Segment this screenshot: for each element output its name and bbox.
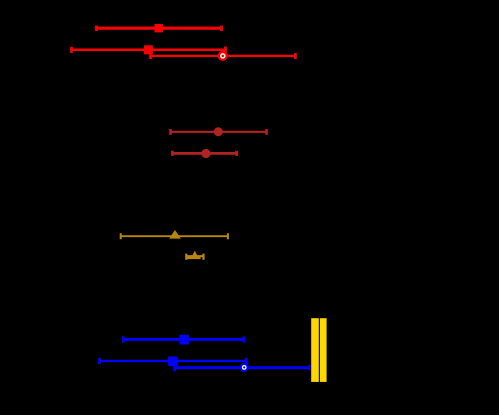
gold vertical bar left xyxy=(311,318,319,382)
legend sample: miniature errorbar with triangle (dark goldenrod) xyxy=(186,251,204,260)
error bar series A row 2 (red) xyxy=(72,45,226,54)
gold vertical bar right xyxy=(320,318,327,382)
error bar series C with triangle marker (dark goldenrod) xyxy=(121,230,228,239)
error bar series A row 3 with open-circle marker (red) xyxy=(151,51,296,61)
error bar series D row 1 (blue) xyxy=(123,335,244,345)
error bar series B row 1 (firebrick) xyxy=(171,127,267,136)
error bar series A row 1 (red) xyxy=(97,24,222,32)
error bar series D row 2 (blue) xyxy=(100,357,247,367)
error bar series D row 3 with open-circle marker (blue) xyxy=(175,363,310,372)
error bar series B row 2 (firebrick) xyxy=(173,149,237,158)
